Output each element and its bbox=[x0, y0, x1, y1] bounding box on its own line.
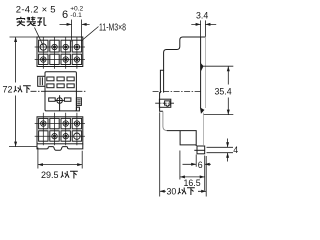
top terminal block outer bbox=[37, 37, 83, 67]
6 dim bbox=[183, 155, 211, 191]
svg-text:29.5: 29.5 bbox=[41, 170, 59, 180]
left clip bbox=[38, 76, 45, 86]
svg-text:6: 6 bbox=[62, 9, 68, 21]
top block cells row1 bbox=[39, 40, 48, 52]
svg-text:4: 4 bbox=[233, 145, 238, 155]
din hook box bbox=[197, 146, 205, 154]
72 dim vertical line bbox=[15, 37, 17, 146]
bottom step inner lines bbox=[180, 131, 196, 145]
hook notch lower bbox=[201, 108, 204, 112]
wedge notch upper bbox=[201, 64, 203, 71]
30 dim bbox=[160, 112, 207, 196]
leader line 11-M3x8 bbox=[82, 27, 99, 41]
72以下 bbox=[3, 85, 13, 95]
bottom block column lines bbox=[43, 113, 77, 146]
arrowheads front bbox=[14, 23, 87, 166]
3.4 dim bbox=[191, 20, 216, 36]
left clip box bbox=[159, 99, 170, 107]
leader line mounting hole bbox=[35, 28, 44, 46]
front center line bbox=[31, 90, 87, 92]
center screw of body bbox=[57, 98, 63, 104]
body mid line bbox=[45, 90, 76, 92]
svg-text:2-4.2 × 5: 2-4.2 × 5 bbox=[16, 5, 56, 16]
lower-left rounded edge bbox=[163, 111, 167, 130]
72 extension lines bbox=[9, 37, 37, 147]
svg-text:16.5: 16.5 bbox=[184, 178, 201, 188]
4 dim bbox=[207, 139, 234, 162]
bottom terminal block outer bbox=[37, 117, 83, 144]
svg-text:30: 30 bbox=[167, 187, 177, 197]
svg-text:72: 72 bbox=[3, 85, 13, 95]
bottom block cells row1 bbox=[39, 118, 48, 128]
svg-text:-0.1: -0.1 bbox=[70, 12, 82, 19]
side center line bbox=[153, 90, 201, 92]
bottom block row cross lines bbox=[35, 124, 85, 137]
top block row cross lines bbox=[35, 47, 85, 60]
3.4 bbox=[167, 11, 239, 197]
latch inner line bbox=[163, 70, 165, 92]
svg-text:11-M3×8: 11-M3×8 bbox=[99, 21, 126, 33]
16.5 dim bbox=[180, 151, 205, 180]
29.5以下 bbox=[41, 170, 59, 180]
right clip bbox=[76, 98, 81, 106]
bottom block cells row2 bbox=[39, 131, 48, 141]
relay pin slots lower bbox=[49, 98, 56, 101]
relay pin slots upper bbox=[47, 77, 54, 81]
right edge bbox=[200, 37, 202, 108]
29.5 dim line bbox=[38, 164, 82, 166]
安装孔 bbox=[17, 17, 47, 26]
6 tolerance dim bbox=[60, 20, 90, 42]
faint extension continuations bbox=[204, 37, 206, 108]
35.4 dim bbox=[203, 66, 233, 114]
middle body bbox=[37, 72, 83, 151]
clip center line bbox=[155, 102, 174, 104]
bottom right notch bbox=[76, 107, 79, 111]
bottom feet outline bbox=[37, 144, 83, 151]
top block column lines bbox=[43, 37, 77, 68]
top block cells row2 bbox=[39, 54, 48, 64]
arrowheads side bbox=[160, 23, 230, 193]
screws M3x8 bbox=[52, 44, 57, 49]
svg-text:3.4: 3.4 bbox=[196, 11, 208, 21]
svg-text:6: 6 bbox=[198, 160, 203, 170]
svg-text:35.4: 35.4 bbox=[215, 86, 232, 96]
main outline bbox=[160, 37, 206, 111]
29.5 extension lines bbox=[38, 148, 82, 169]
mounting holes 4.2x5 bbox=[40, 44, 46, 50]
